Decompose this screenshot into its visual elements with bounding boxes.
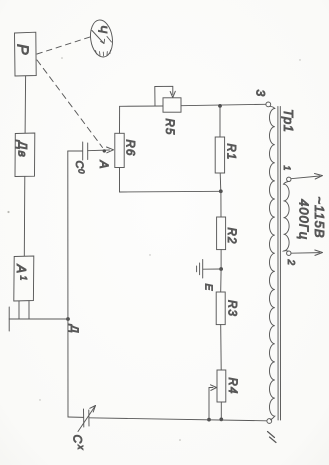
wire R6 bottom to R1 bottom [120, 190, 221, 193]
C0 wire right with arrow to node A [88, 149, 110, 152]
svg-text:R6: R6 [124, 140, 136, 157]
svg-text:~115В: ~115В [312, 197, 327, 239]
svg-text:1: 1 [282, 166, 292, 171]
rheostat R5 [163, 98, 181, 112]
R2 bottom lead [220, 250, 222, 269]
R4 bottom lead [220, 402, 222, 419]
wire Dv to A1 [23, 177, 26, 257]
primary winding [284, 182, 290, 252]
svg-text:R3: R3 [226, 300, 238, 317]
svg-text:Ч: Ч [96, 25, 110, 34]
resistor R1 [215, 137, 224, 173]
box Dv (motor) [15, 133, 35, 177]
capacitor Cx [78, 406, 96, 432]
svg-text:1: 1 [19, 276, 29, 281]
svg-text:3: 3 [254, 90, 268, 97]
svg-text:Е: Е [203, 284, 215, 292]
R6 top lead [119, 106, 121, 133]
junction dot [219, 189, 223, 193]
R3 top lead [220, 269, 222, 292]
C0 wire left [68, 150, 83, 152]
wire P to Dv [24, 76, 27, 133]
wire A1 to node D [9, 318, 68, 320]
svg-text:R2: R2 [225, 228, 237, 245]
potentiometer R6 [115, 133, 124, 167]
terminal 3 [266, 102, 271, 107]
R2 top lead [220, 191, 222, 217]
capacitor C0 [83, 142, 88, 160]
dashed link P to node A [37, 60, 103, 148]
terminal 4 (bottom secondary) [267, 419, 272, 424]
resistor R3 [216, 292, 225, 325]
R5 wiper loop [155, 86, 173, 106]
source line from terminal 1 with arrow [291, 176, 320, 179]
core lines [277, 107, 279, 421]
svg-text:Р: Р [14, 44, 31, 55]
R1 top lead [219, 106, 221, 137]
junction dot R1 top [218, 104, 222, 108]
box P (regulator) [15, 32, 37, 76]
label 4 strokes [268, 432, 277, 443]
svg-text:R5: R5 [163, 119, 175, 136]
node D junction [66, 317, 70, 321]
R6 bottom lead [119, 168, 121, 193]
box A1 (amplifier) [14, 256, 34, 301]
svg-text:А: А [14, 264, 29, 274]
source line from terminal 2 with arrow [291, 252, 320, 255]
svg-text:А: А [97, 160, 111, 169]
svg-text:Д: Д [68, 323, 80, 333]
secondary winding [269, 106, 274, 420]
R1 bottom lead [219, 173, 222, 191]
resistor R2 [217, 217, 226, 250]
R4 wiper [209, 387, 213, 389]
svg-text:R1: R1 [225, 144, 237, 161]
svg-text:400Гц: 400Гц [297, 199, 312, 240]
svg-text:х: х [76, 444, 86, 450]
ground E junction dot [219, 267, 223, 271]
svg-text:2: 2 [285, 259, 296, 266]
terminal 2 [287, 251, 291, 255]
svg-text:Тр1: Тр1 [281, 109, 296, 132]
dashed link P to meter [37, 37, 90, 54]
ground electrode bar [8, 307, 10, 331]
bottom wire to transformer [89, 418, 266, 421]
potentiometer R4 [217, 370, 226, 402]
wire R5 to transformer terminal 3 [181, 104, 265, 105]
vertical wire node D column [67, 151, 69, 417]
terminal 1 [287, 177, 291, 181]
top wire to R5 [120, 105, 163, 107]
svg-text:С: С [71, 435, 85, 444]
R3 to R4 wire [220, 325, 223, 370]
svg-text:0: 0 [77, 169, 86, 174]
A1 right lead [28, 301, 30, 319]
ground E wire [203, 268, 221, 270]
junction dots bottom [207, 418, 211, 422]
ground E symbol [197, 260, 203, 279]
A1 left lead [18, 301, 20, 319]
svg-text:R4: R4 [226, 378, 238, 395]
meter (gauge Ч) [88, 19, 115, 59]
bottom wire left segment [68, 416, 83, 418]
svg-text:Дв: Дв [16, 139, 30, 158]
svg-text:С: С [73, 161, 85, 169]
